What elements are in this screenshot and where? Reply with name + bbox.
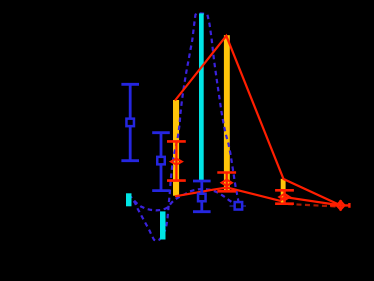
gold bar O3	[281, 179, 286, 205]
cyan bar C3	[160, 211, 166, 239]
square marker S3	[198, 194, 206, 202]
blue errorbar S2	[152, 133, 170, 191]
blue errorbar S1	[121, 84, 139, 160]
faint navy line under square S4	[230, 205, 247, 207]
dark red dashed line to last diamond	[288, 204, 336, 207]
diamond marker D1	[171, 159, 182, 165]
diamond marker D4	[337, 201, 345, 210]
red errorbar D2	[217, 173, 236, 192]
red errorbar D3	[275, 190, 294, 203]
diamond marker D2	[222, 180, 232, 186]
gold bar O1	[173, 100, 179, 196]
cyan bar C2	[126, 193, 132, 206]
red errorbar D4 (x-error)	[330, 200, 349, 211]
red solid line through lower points	[175, 188, 341, 206]
gold bar O2	[224, 35, 230, 192]
square marker S4	[235, 202, 243, 210]
blue errorbar S3	[193, 181, 211, 212]
cyan bar C1 (tall)	[199, 13, 204, 181]
diamond marker D3	[279, 194, 289, 200]
blue dashed model curve B (spike with deep notch)	[129, 13, 239, 240]
blue dashed model curve A (broad bump)	[129, 189, 238, 210]
red errorbar D1	[167, 141, 186, 180]
square marker S1	[126, 119, 134, 127]
red solid line through gold bar tops	[175, 36, 341, 206]
square marker S2	[157, 157, 165, 165]
